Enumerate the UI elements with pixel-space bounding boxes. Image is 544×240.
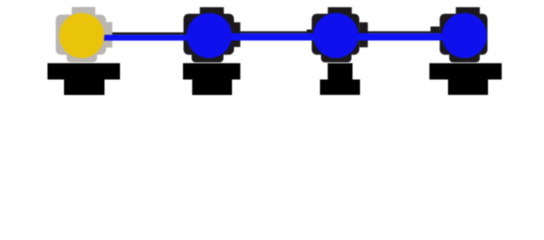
node tab 2 (black, top of tile 2) <box>200 7 224 15</box>
node tab 1 (gray, top of tile 1) <box>72 7 96 15</box>
node tab 4 (black, top of tile 4) <box>456 7 480 15</box>
node tile 1 body (gray rounded square) <box>56 15 106 55</box>
node tile 2 chin (black bottom ledge) <box>192 54 224 62</box>
wire: thick end stub left of tile 3 <box>307 30 312 34</box>
step circle 1 (current, yellow) <box>59 13 104 58</box>
wire: thick end stub left of tile 4 <box>431 27 440 34</box>
wire: gray cap right of tile 1 <box>106 22 112 48</box>
step circle 4 (blue) <box>442 13 487 58</box>
node tile 2 body (black rounded square) <box>184 14 235 55</box>
wire: blue connector segment 1-2 <box>82 35 210 41</box>
step circle 2 (blue) <box>187 13 232 58</box>
node tile 4 body (black rounded square) <box>440 14 488 55</box>
label 2 line 2 (redacted text bar) <box>192 80 232 96</box>
node tab 3 (black, top of tile 3) <box>328 7 352 15</box>
label 1 line 1 (redacted text bar) <box>48 63 121 79</box>
node tile 3 chin (black bottom ledge) <box>321 54 352 62</box>
step circle 3 (blue) <box>313 13 358 58</box>
wire: dark back line segment 3-4 <box>336 31 465 33</box>
label 4 line 1 (redacted text bar) <box>429 63 501 79</box>
label 3 line 2 (redacted text bar) <box>320 80 360 95</box>
wire: black cap right of tile 3 <box>359 22 368 47</box>
node tile 1 chin (gray bottom ledge) <box>67 54 97 62</box>
node tile 4 chin (black bottom ledge) <box>449 54 480 62</box>
wire: dark back line segment 2-3 <box>209 31 336 33</box>
wire: blue connector segment 2-3 <box>209 33 336 40</box>
label 3 line 1 (redacted text bar) <box>328 63 353 79</box>
wire: black cap right of tile 2 <box>234 22 240 47</box>
label 2 line 1 (redacted text bar) <box>183 63 240 79</box>
node tile 3 body (black rounded square) <box>312 14 360 55</box>
label 1 line 2 (redacted text bar) <box>64 80 105 96</box>
wire: dark back line segment 1-2 <box>82 32 210 34</box>
label 4 line 2 (redacted text bar) <box>448 80 488 95</box>
wire: blue connector segment 3-4 <box>336 33 465 40</box>
